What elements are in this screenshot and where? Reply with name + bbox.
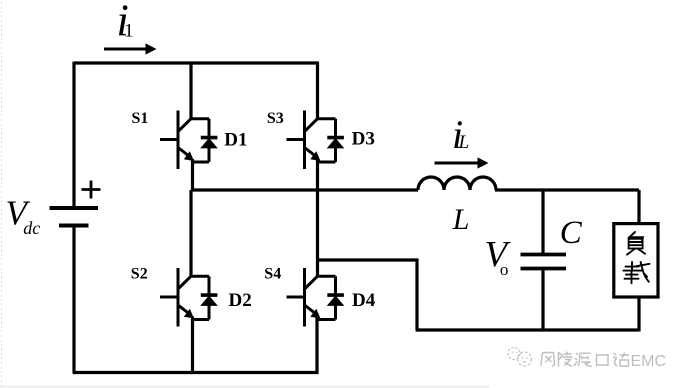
- svg-text:C: C: [560, 215, 583, 251]
- svg-text:o: o: [500, 260, 509, 279]
- svg-text:S4: S4: [264, 266, 281, 283]
- svg-text:EMC: EMC: [631, 353, 667, 370]
- svg-text:L: L: [458, 132, 470, 153]
- svg-text:D1: D1: [224, 129, 247, 150]
- svg-text:dc: dc: [23, 218, 40, 238]
- svg-text:D3: D3: [352, 129, 375, 150]
- svg-text:L: L: [452, 203, 470, 236]
- svg-text:S3: S3: [267, 110, 284, 127]
- svg-text:1: 1: [124, 20, 134, 41]
- svg-text:S2: S2: [131, 266, 148, 283]
- svg-text:D4: D4: [352, 290, 376, 311]
- svg-text:S1: S1: [132, 110, 149, 127]
- svg-text:D2: D2: [229, 290, 252, 311]
